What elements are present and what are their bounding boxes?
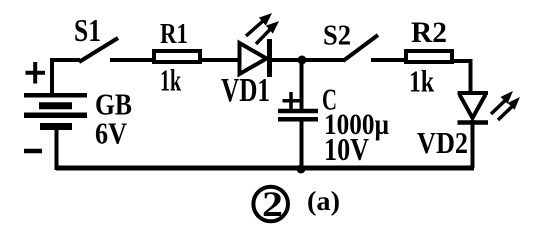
svg-text:6V: 6V — [95, 116, 128, 151]
svg-text:(a): (a) — [307, 186, 340, 216]
svg-text:S1: S1 — [74, 12, 101, 48]
svg-text:R1: R1 — [160, 18, 188, 50]
svg-text:VD1: VD1 — [221, 72, 270, 109]
svg-text:S2: S2 — [323, 20, 351, 52]
svg-text:1k: 1k — [409, 64, 435, 99]
svg-text:VD2: VD2 — [417, 125, 468, 160]
svg-text:2: 2 — [262, 184, 283, 224]
svg-text:1k: 1k — [160, 63, 181, 98]
svg-text:R2: R2 — [411, 16, 447, 49]
svg-text:10V: 10V — [324, 131, 369, 167]
